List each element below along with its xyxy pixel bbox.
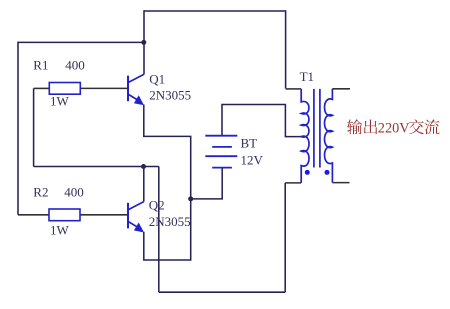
transistor Q2	[128, 202, 144, 229]
wire Q1 collector vertical	[143, 10, 145, 74]
wire primary-bottom stub	[285, 182, 301, 184]
char 出	[364, 120, 378, 135]
wire bottom rail	[159, 291, 285, 293]
transformer T1 primary winding	[301, 89, 309, 183]
char 交	[409, 119, 424, 134]
svg-text:Q1: Q1	[149, 72, 165, 87]
battery BT plates	[205, 136, 237, 168]
node junction dot collector-feed	[141, 40, 146, 45]
wire R2 left lead	[18, 214, 49, 216]
wire left rail	[17, 42, 19, 215]
svg-text:2N3055: 2N3055	[149, 214, 191, 229]
transformer core	[314, 89, 320, 168]
wire battery positive to center tap	[222, 105, 301, 137]
wire R1 right lead to Q1 base	[80, 87, 127, 89]
resistor R1	[49, 83, 80, 95]
svg-text:1W: 1W	[50, 93, 70, 108]
resistor R2	[49, 209, 80, 221]
svg-text:400: 400	[64, 185, 84, 200]
transformer T1 secondary winding	[325, 89, 333, 183]
output label chinese chars (red)	[347, 119, 440, 134]
wire output bottom stub	[332, 182, 349, 184]
wire R2 right lead to Q2 base	[80, 214, 128, 216]
char 输	[347, 119, 362, 134]
char 流	[425, 119, 440, 134]
svg-text:2N3055: 2N3055	[149, 88, 191, 103]
wire top rail	[144, 10, 286, 12]
wire R1 left lead	[34, 87, 50, 89]
wire Q2 collector vertical	[143, 167, 145, 202]
node junction dot Q2 collector	[141, 164, 146, 169]
svg-text:1W: 1W	[50, 222, 70, 237]
svg-text:R2: R2	[33, 185, 48, 200]
wire primary top stub	[286, 88, 302, 90]
wire Q1 emitter path	[144, 105, 191, 199]
transformer phase dot left	[305, 170, 310, 175]
svg-text:220V: 220V	[378, 120, 410, 136]
svg-text:12V: 12V	[241, 153, 264, 168]
wire battery negative stub	[191, 168, 223, 199]
node junction dot emitters-battery	[188, 196, 193, 201]
transformer phase dot right	[325, 170, 330, 175]
wire primary-bottom vertical	[284, 183, 286, 292]
svg-text:T1: T1	[300, 69, 314, 84]
wire Q2 emitter path	[144, 199, 191, 260]
transistor Q1	[128, 74, 144, 101]
svg-text:400: 400	[65, 58, 85, 73]
svg-text:R1: R1	[33, 58, 48, 73]
wire left feed horizontal	[18, 41, 144, 43]
wire right descender to bottom rail	[158, 167, 160, 293]
wire cross-coupling left vertical	[33, 88, 35, 166]
wire cross-coupling horizontal	[34, 166, 159, 168]
svg-text:BT: BT	[241, 136, 258, 151]
wire top rail right vertical	[285, 10, 287, 88]
wire output top stub	[332, 88, 350, 90]
svg-text:Q2: Q2	[149, 198, 165, 213]
